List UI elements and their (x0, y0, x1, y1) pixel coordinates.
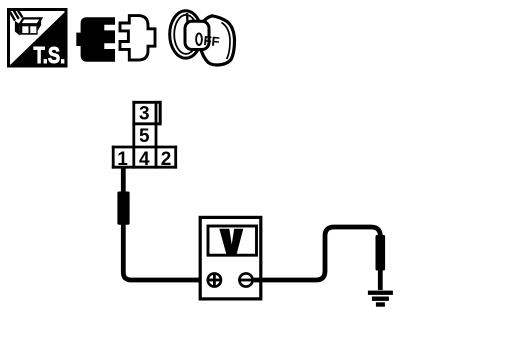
icon: T.S. label text (34, 43, 66, 68)
svg-text:4: 4 (139, 149, 150, 170)
svg-text:2: 2 (161, 149, 172, 170)
svg-text:5: 5 (139, 126, 150, 147)
icon: ignition key OFF, barrel (185, 21, 209, 49)
icon: T.S. (tester/switch) square frame (9, 10, 67, 67)
icon: T.S. connector art body (15, 18, 41, 35)
icon: disconnected connector, female half (outline) (120, 16, 155, 60)
wire from pin 1 to voltmeter plus terminal (123, 167, 208, 280)
svg-text:3: 3 (139, 104, 150, 125)
test probe on right wire (376, 235, 386, 271)
connector pin diagram: pin number 5 (139, 126, 150, 147)
connector pin diagram: grid (113, 102, 176, 167)
voltmeter body (200, 217, 261, 299)
ground symbol (368, 291, 393, 307)
icon: T.S. black triangle (8, 10, 66, 66)
svg-text:T.S.: T.S. (34, 43, 66, 68)
icon: T.S. connector art wires (10, 9, 23, 20)
icon: ignition key OFF, lock ring (170, 11, 202, 58)
wire from voltmeter minus terminal to ground (252, 227, 380, 290)
icon: disconnected connector, male half (solid) (76, 17, 115, 61)
voltmeter plus terminal (208, 273, 221, 286)
connector pin diagram: pin number 2 (161, 149, 172, 170)
connector pin diagram: pin number 4 (139, 149, 150, 170)
icon: ignition key OFF, key head (200, 16, 235, 65)
icon: ignition key OFF, OFF text (196, 33, 220, 49)
icon: ignition key OFF, top tick (186, 13, 189, 22)
voltmeter minus terminal (239, 273, 252, 286)
voltmeter display window (208, 226, 257, 255)
connector pin diagram: pin number 1 (117, 149, 128, 170)
test probe on left wire (117, 192, 129, 225)
voltmeter V symbol (219, 229, 243, 255)
svg-text:FF: FF (203, 33, 220, 49)
connector pin diagram: pin number 3 (139, 104, 150, 125)
svg-text:1: 1 (117, 149, 128, 170)
